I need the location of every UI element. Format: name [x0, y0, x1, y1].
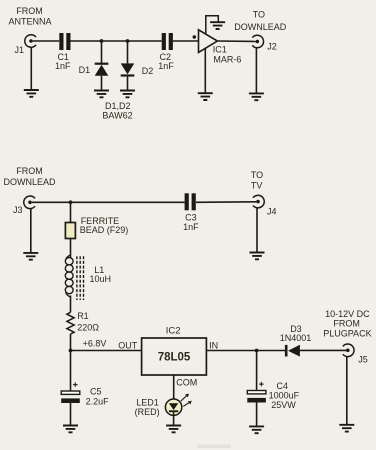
- svg-text:TO: TO: [253, 10, 265, 20]
- op-amp IC1 MAR-6 amplifier triangle: [199, 30, 218, 53]
- wire IC2 IN to D3: [206, 350, 285, 352]
- node +6.8V junction: [69, 349, 73, 353]
- svg-text:1nF: 1nF: [55, 61, 71, 71]
- wire R1 to C5: [70, 334, 72, 391]
- svg-text:PLUGPACK: PLUGPACK: [323, 328, 371, 338]
- ground under IC1: [198, 93, 213, 100]
- voltage regulator IC2 box: [142, 338, 207, 375]
- wire node to IC2 OUT: [71, 350, 142, 352]
- wire bead to L1: [70, 239, 72, 258]
- svg-text:D2: D2: [142, 66, 154, 76]
- connector J3: [24, 196, 35, 209]
- wire L1 to R1: [70, 296, 72, 313]
- resistor R1 zigzag: [67, 312, 74, 334]
- ground under J5: [339, 425, 354, 432]
- wire J1 to C1: [33, 40, 59, 42]
- diode D2: [121, 41, 135, 91]
- svg-text:IN: IN: [209, 340, 218, 350]
- wire COM to LED1: [173, 375, 175, 403]
- node junction D1: [100, 39, 104, 43]
- capacitor C2: [162, 33, 173, 50]
- svg-text:25VW: 25VW: [271, 400, 296, 410]
- wire junction to ferrite bead: [70, 202, 72, 222]
- svg-text:1nF: 1nF: [183, 222, 199, 232]
- capacitor C3: [185, 193, 196, 210]
- diode D3 1N4001: [285, 345, 300, 357]
- wire LED1 to ground: [173, 412, 175, 425]
- wire IC1 out to J2: [217, 40, 255, 42]
- ground under J4: [250, 253, 265, 260]
- wire J1 shield to ground: [30, 47, 32, 90]
- wire IC1 bottom to ground: [204, 48, 206, 93]
- capacitor C5 electrolytic: [61, 382, 80, 403]
- svg-text:D1,D2: D1,D2: [105, 101, 131, 111]
- wire J3 to C3: [32, 201, 185, 203]
- svg-text:+6.8V: +6.8V: [83, 339, 107, 349]
- svg-text:J5: J5: [358, 355, 368, 365]
- svg-text:J2: J2: [267, 42, 277, 52]
- LED LED1: [165, 399, 181, 415]
- svg-text:R1: R1: [77, 311, 89, 321]
- svg-text:IC2: IC2: [166, 326, 181, 337]
- svg-text:J4: J4: [267, 206, 277, 216]
- wire J4 shield to ground: [256, 208, 258, 253]
- wire C2 to IC1 input: [173, 40, 198, 42]
- ground under D1: [94, 91, 109, 98]
- ground under J3: [23, 253, 38, 260]
- wire C4 to ground: [256, 403, 258, 427]
- svg-text:C5: C5: [90, 386, 102, 396]
- svg-text:J1: J1: [15, 45, 25, 55]
- svg-text:BAW62: BAW62: [102, 111, 132, 121]
- svg-text:ANTENNA: ANTENNA: [8, 17, 51, 27]
- wire J3 shield to ground: [30, 209, 32, 253]
- svg-text:220Ω: 220Ω: [77, 323, 99, 333]
- wire J5 shield to ground: [346, 356, 348, 424]
- svg-text:FROM: FROM: [16, 6, 43, 16]
- svg-text:1N4001: 1N4001: [280, 333, 312, 343]
- capacitor C4 electrolytic: [247, 382, 266, 403]
- wire J2 shield to ground: [255, 48, 257, 94]
- svg-text:1nF: 1nF: [158, 61, 174, 71]
- inductor L1 coil: [65, 255, 73, 297]
- wire IC1 top pin to ground: [206, 16, 219, 35]
- svg-text:DOWNLEAD: DOWNLEAD: [234, 22, 287, 32]
- connector J1: [25, 35, 36, 48]
- svg-text:TV: TV: [251, 180, 263, 190]
- svg-text:C3: C3: [185, 212, 197, 222]
- diode D1: [95, 41, 109, 91]
- svg-text:BEAD (F29): BEAD (F29): [80, 225, 129, 235]
- node junction D2: [126, 39, 130, 43]
- capacitor C1: [59, 33, 70, 50]
- svg-text:FROM: FROM: [16, 166, 43, 176]
- ferrite bead FB1: [65, 223, 75, 239]
- ground under D2: [120, 91, 135, 98]
- connector J2: [252, 35, 263, 48]
- svg-text:DOWNLEAD: DOWNLEAD: [3, 177, 56, 187]
- ground under C4: [249, 426, 264, 433]
- ground under C5: [63, 426, 78, 433]
- svg-text:MAR-6: MAR-6: [213, 54, 241, 64]
- svg-text:LED1: LED1: [136, 398, 159, 408]
- svg-text:COM: COM: [176, 378, 197, 388]
- svg-text:OUT: OUT: [118, 341, 138, 351]
- svg-text:IC1: IC1: [213, 44, 227, 54]
- wire junction to C4: [256, 351, 258, 391]
- node junction ferrite branch: [69, 200, 73, 204]
- wire C3 to J4: [196, 201, 256, 204]
- connector J4: [253, 195, 264, 208]
- pin marking dot on IC1 input: [193, 35, 197, 39]
- LED1 light arrows: [181, 394, 192, 407]
- svg-text:(RED): (RED): [135, 407, 160, 417]
- svg-text:J3: J3: [13, 205, 23, 215]
- svg-text:D1: D1: [79, 65, 91, 75]
- inductor L1 core dashed lines: [77, 256, 84, 300]
- ground under J1: [24, 90, 39, 97]
- svg-text:78L05: 78L05: [158, 352, 191, 364]
- ground under J2: [249, 93, 264, 100]
- ground under LED1: [166, 426, 181, 433]
- ground at IC1 top: [210, 22, 225, 29]
- svg-text:10uH: 10uH: [90, 274, 112, 284]
- wire C1 to C2: [71, 40, 162, 42]
- connector J5: [343, 344, 354, 357]
- wire C5 to ground: [70, 403, 72, 426]
- svg-text:2.2uF: 2.2uF: [86, 396, 110, 406]
- svg-text:FROM: FROM: [333, 318, 360, 328]
- wire D3 to J5: [300, 349, 346, 351]
- node junction C4: [255, 349, 259, 353]
- svg-text:TO: TO: [251, 170, 263, 180]
- faint cropped caption remnant: [197, 445, 231, 449]
